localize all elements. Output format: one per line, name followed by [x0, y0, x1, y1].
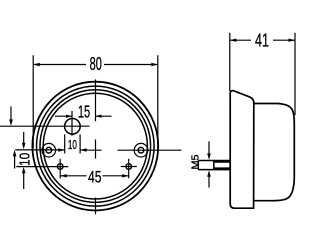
arrowheads left dim 10	[22, 143, 26, 150]
dim 80 line	[33, 64, 158, 66]
svg-text:45: 45	[88, 168, 102, 187]
arrowheads dim 80	[33, 63, 40, 66]
svg-text:15: 15	[78, 102, 90, 122]
svg-text:41: 41	[255, 31, 269, 51]
small holes centerline	[16, 166, 68, 168]
screw-hole centerline right	[118, 149, 182, 151]
screw-hole centerline left	[15, 149, 64, 151]
top hole (Ø10)	[65, 119, 81, 135]
dim 45 line	[60, 175, 129, 177]
left small hole vertical	[59, 159, 61, 179]
centerline vertical bottom	[95, 198, 97, 215]
left small hole	[57, 164, 63, 170]
arrowheads dim 41	[230, 39, 237, 42]
lamp lens rings (front view)	[32, 82, 158, 211]
side view lens	[254, 104, 294, 201]
svg-text:80: 80	[90, 54, 102, 74]
right small hole cross	[121, 159, 137, 179]
arrowheads dim 45	[60, 174, 66, 177]
dim 15 shafts	[55, 115, 112, 117]
arrowheads far-left dim	[9, 119, 13, 126]
arrowheads M5	[207, 153, 211, 160]
centerline vertical top	[95, 79, 97, 121]
top hole horizontal centerline	[0, 125, 90, 127]
M5 stud	[198, 161, 230, 170]
dim 80 extension lines	[33, 55, 158, 148]
far-left dim shafts	[11, 107, 15, 169]
left dim 10 arrows shafts	[23, 132, 25, 189]
right screw hole	[134, 143, 148, 157]
svg-text:10: 10	[68, 137, 77, 152]
top hole vertical centerline	[71, 111, 73, 136]
arrowheads dim 15	[66, 115, 72, 118]
dim 10 right shaft	[80, 149, 88, 151]
right small hole	[126, 164, 132, 170]
dim 41 line	[230, 39, 295, 41]
svg-text:M5: M5	[191, 154, 202, 169]
center cross	[88, 140, 101, 159]
arrowheads dim 10 top hole	[58, 148, 64, 151]
dim 10 (top hole) extension lines	[65, 134, 80, 153]
side view body (base)	[230, 91, 254, 209]
M5 arrows shafts	[208, 141, 210, 187]
dim 41 extension lines	[230, 33, 295, 115]
svg-text:10: 10	[17, 153, 33, 166]
left screw hole	[42, 143, 56, 157]
